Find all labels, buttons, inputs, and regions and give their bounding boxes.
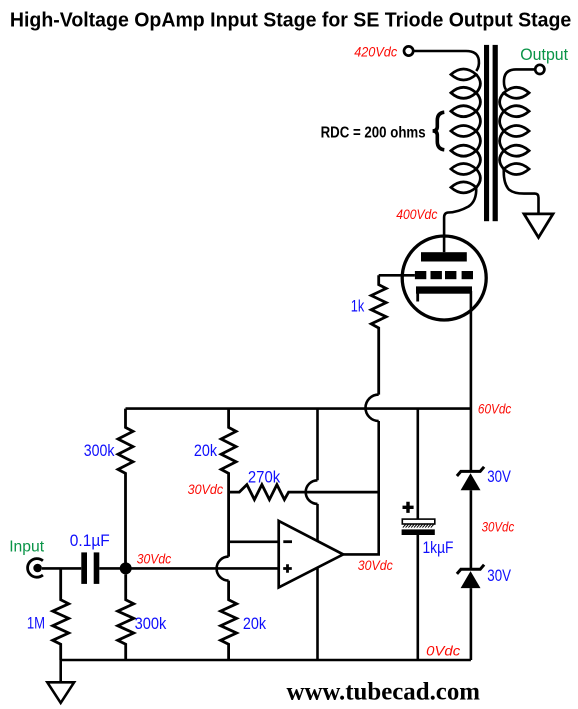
opamp power rail V-	[316, 568, 319, 660]
svg-text:0.1µF: 0.1µF	[70, 532, 110, 550]
wire between zeners	[470, 490, 473, 568]
wire B+ to transformer primary	[414, 51, 479, 71]
capacitor C2 bottom plate	[402, 529, 435, 535]
transformer T1 secondary winding	[500, 87, 530, 174]
wire 60Vdc bus	[126, 407, 471, 410]
resistor 20k (lower)	[221, 581, 237, 660]
wire input to cap	[42, 567, 81, 570]
wire grid lead	[379, 274, 415, 277]
triode V1 envelope	[402, 236, 486, 320]
capacitor C2 negative lead	[416, 535, 419, 660]
svg-text:20k: 20k	[194, 442, 218, 460]
resistor 300k (upper)	[118, 409, 133, 563]
svg-text:0Vdc: 0Vdc	[426, 643, 460, 659]
wire inverting input	[229, 540, 279, 543]
svg-text:30Vdc: 30Vdc	[137, 551, 172, 567]
ground (input)	[47, 682, 74, 703]
wire cathode to 60Vdc rail	[470, 291, 473, 470]
wire secondary bottom to ground	[504, 169, 539, 214]
resistor 270k	[229, 485, 379, 500]
capacitor C2 1kuF positive lead	[416, 409, 419, 519]
capacitor C2 plus sign	[403, 502, 414, 513]
triode V1 grid	[415, 271, 473, 279]
svg-text:60Vdc: 60Vdc	[478, 401, 511, 417]
resistor 300k (lower)	[118, 574, 134, 660]
resistor 1M	[53, 568, 69, 660]
wire noninverting input	[126, 567, 279, 570]
hop V+ rail over 270k line	[306, 480, 318, 504]
transformer T1 primary winding	[451, 69, 481, 193]
svg-text:30Vdc: 30Vdc	[358, 557, 393, 573]
ground (transformer secondary)	[524, 214, 553, 238]
opamp U1	[279, 521, 344, 588]
capacitor C1 0.1uF	[81, 552, 99, 584]
transformer core	[484, 45, 498, 221]
terminal Output	[535, 65, 544, 74]
hop grid wire over 60Vdc bus	[366, 395, 379, 421]
cathode stub	[416, 294, 419, 302]
capacitor C2 hatched plate	[403, 525, 434, 528]
svg-text:20k: 20k	[243, 615, 267, 633]
svg-text:High-Voltage OpAmp Input Stage: High-Voltage OpAmp Input Stage for SE Tr…	[10, 10, 571, 32]
svg-text:1M: 1M	[27, 614, 45, 632]
wire cap to junction	[99, 567, 125, 570]
wire 1k to opamp output	[343, 421, 379, 554]
opamp minus sign	[283, 540, 292, 543]
wire 0Vdc bus	[61, 659, 471, 662]
svg-text:RDC = 200 ohms: RDC = 200 ohms	[321, 125, 426, 142]
input jack	[28, 559, 43, 578]
svg-text:270k: 270k	[248, 468, 281, 486]
ground stub	[59, 660, 62, 682]
opamp plus sign	[283, 564, 292, 573]
svg-text:300k: 300k	[84, 442, 115, 460]
triode V1 plate	[421, 252, 467, 261]
zener D1 30V	[457, 467, 484, 476]
svg-text:Input: Input	[9, 539, 44, 556]
opamp power rail V+	[316, 409, 319, 481]
resistor 1k	[371, 275, 386, 394]
svg-text:30Vdc: 30Vdc	[482, 519, 515, 535]
wire primary bottom to 400Vdc node	[444, 187, 476, 252]
hop 20k rail over + input wire	[217, 557, 229, 581]
svg-text:www.tubecad.com: www.tubecad.com	[287, 679, 481, 706]
svg-text:420Vdc: 420Vdc	[354, 44, 397, 60]
svg-text:30Vdc: 30Vdc	[188, 481, 224, 497]
brace	[433, 112, 445, 150]
terminal 420Vdc	[404, 46, 413, 55]
resistor 20k (upper)	[221, 409, 236, 557]
svg-text:400Vdc: 400Vdc	[396, 206, 437, 222]
svg-text:30V: 30V	[487, 468, 511, 486]
svg-text:30V: 30V	[487, 567, 511, 585]
zener D2 30V	[457, 565, 484, 574]
svg-text:Output: Output	[520, 45, 568, 64]
wire plate lead	[443, 235, 446, 253]
node junction dot	[120, 562, 132, 574]
svg-text:1k: 1k	[351, 297, 365, 315]
wire secondary top to Output terminal	[504, 69, 535, 89]
svg-text:1kµF: 1kµF	[423, 539, 454, 557]
capacitor C2 top plate	[402, 519, 435, 524]
triode V1 cathode	[416, 286, 472, 293]
svg-text:300k: 300k	[135, 615, 167, 633]
wire zener2 to 0Vdc bus	[470, 588, 473, 660]
